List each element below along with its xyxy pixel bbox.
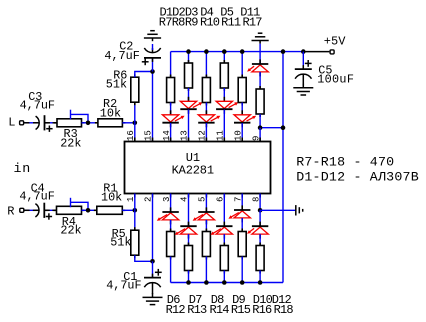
node label D4 bbox=[200, 5, 213, 19]
node label D11 bbox=[240, 5, 260, 19]
wire R8 to D2 bbox=[188, 88, 190, 101]
svg-text:9: 9 bbox=[251, 136, 261, 141]
net label +5V bbox=[324, 34, 346, 48]
node pin9 junction bbox=[258, 125, 263, 130]
note resistor values bbox=[296, 155, 394, 170]
value label R5 51k bbox=[110, 235, 131, 249]
pin 14 stub bbox=[170, 138, 172, 142]
wire D11 cathode to ground bbox=[259, 44, 261, 64]
pin 8 stub bbox=[259, 194, 261, 198]
wire R2 to pin16 node bbox=[122, 122, 134, 124]
capacitor C1 bbox=[144, 269, 162, 294]
svg-text:in: in bbox=[14, 161, 32, 176]
ground below C5 bbox=[293, 84, 313, 95]
terminal L bbox=[8, 116, 23, 130]
wire bottom bus bbox=[171, 282, 283, 284]
resistor R2 bbox=[95, 119, 126, 127]
node label D1 bbox=[160, 5, 173, 19]
svg-text:13: 13 bbox=[180, 130, 190, 141]
wire bus to R10 bbox=[223, 52, 225, 63]
node label D3 bbox=[185, 5, 198, 19]
wire D6 to R12 bbox=[170, 220, 172, 232]
text label C1 bbox=[123, 270, 137, 284]
pin 4 stub bbox=[188, 194, 190, 198]
node bottom bus junction pin7 bbox=[240, 280, 245, 285]
resistor R9 bbox=[202, 75, 210, 106]
wire +5V right rail bbox=[282, 52, 284, 283]
pin number 9 bbox=[251, 136, 261, 141]
wire bus to R11 bbox=[241, 52, 243, 78]
svg-text:KA2281: KA2281 bbox=[172, 163, 214, 177]
text label R5 bbox=[112, 227, 126, 241]
LED D4 bbox=[216, 97, 238, 114]
text label R4 bbox=[62, 215, 76, 229]
capacitor C3 bbox=[33, 115, 53, 132]
svg-text:R14: R14 bbox=[210, 303, 230, 317]
wire pin2 to IC bbox=[152, 194, 154, 262]
pin number 11 bbox=[216, 130, 226, 141]
svg-text:4,7uF: 4,7uF bbox=[20, 98, 55, 112]
wire R12 to bottom bus bbox=[170, 257, 172, 283]
resistor R7 bbox=[167, 75, 175, 106]
value label C2 4,7uF bbox=[104, 49, 139, 63]
value label R8 bbox=[172, 16, 185, 30]
value label R12 bbox=[166, 303, 186, 317]
resistor R18 bbox=[256, 243, 264, 274]
pin 2 stub bbox=[152, 194, 154, 198]
pin number 8 bbox=[251, 197, 261, 202]
wire pin16 to IC bbox=[134, 123, 136, 142]
svg-text:R18: R18 bbox=[274, 303, 294, 317]
wire pin16 node up to R6 bbox=[134, 102, 136, 123]
pin 16 stub bbox=[134, 138, 136, 142]
node bottom bus junction pin6 bbox=[222, 280, 227, 285]
wire R15 to bottom bus bbox=[223, 271, 225, 283]
wire R4 wiper jog bbox=[71, 198, 89, 211]
text label KA2281 bbox=[172, 163, 214, 177]
capacitor C5 bbox=[295, 60, 312, 86]
value label R4 22k bbox=[60, 223, 81, 237]
wire D4 to pin 11 bbox=[223, 110, 225, 142]
wire R10 to D4 bbox=[223, 88, 225, 101]
LED D12 bbox=[247, 222, 268, 239]
resistor R16 bbox=[238, 229, 246, 260]
wire D12 to R18 bbox=[259, 234, 261, 245]
svg-text:10k: 10k bbox=[101, 190, 122, 204]
wire R13 to bottom bus bbox=[188, 271, 190, 283]
text label R1 bbox=[103, 182, 117, 196]
wire pin8 to node bbox=[259, 194, 261, 211]
resistor R14 bbox=[202, 229, 210, 260]
ground below C1 bbox=[143, 293, 163, 304]
pin number 13 bbox=[180, 130, 190, 141]
wire D3 to pin 12 bbox=[205, 123, 207, 142]
node bottom bus junction pin8 bbox=[258, 280, 263, 285]
svg-text:R15: R15 bbox=[231, 303, 251, 317]
value label R13 bbox=[187, 303, 207, 317]
resistor R15 bbox=[220, 243, 228, 274]
svg-text:R8: R8 bbox=[172, 16, 185, 30]
pin number 7 bbox=[233, 197, 243, 202]
svg-text:R9: R9 bbox=[185, 16, 198, 30]
wire C2 lead bbox=[152, 58, 154, 72]
pin 15 stub bbox=[152, 138, 154, 142]
text label R3 bbox=[64, 127, 78, 141]
svg-text:15: 15 bbox=[144, 130, 154, 141]
svg-text:14: 14 bbox=[162, 130, 172, 141]
value label R17 bbox=[243, 16, 263, 30]
node bus-rail junction bbox=[281, 49, 286, 54]
node pin8 junction bbox=[258, 208, 263, 213]
pin 5 stub bbox=[205, 194, 207, 198]
svg-text:R7: R7 bbox=[159, 16, 172, 30]
node bus junction pin13 bbox=[186, 49, 191, 54]
wire R14 to bottom bus bbox=[205, 257, 207, 283]
ground above D11 bbox=[252, 33, 269, 44]
wire R9 to D3 bbox=[205, 103, 207, 115]
value label R2 10k bbox=[100, 106, 121, 120]
node bus junction pin11 bbox=[222, 49, 227, 54]
wire C2 to ground bbox=[152, 44, 154, 50]
wire R5 to pin2 node bbox=[135, 255, 153, 261]
resistor R17 bbox=[256, 86, 264, 117]
value label R7 bbox=[159, 16, 172, 30]
wire bus to R7 bbox=[170, 52, 172, 78]
node R4-R1 junction bbox=[86, 208, 91, 213]
pin number 5 bbox=[198, 197, 208, 202]
text label C5 bbox=[318, 64, 332, 78]
node label D6 bbox=[167, 293, 180, 307]
svg-text:12: 12 bbox=[198, 130, 208, 141]
text label R6 bbox=[113, 69, 127, 83]
node bus-C5 junction bbox=[301, 49, 306, 54]
capacitor C2 bbox=[142, 48, 161, 65]
resistor R5 bbox=[131, 227, 139, 258]
value label R10 bbox=[200, 16, 220, 30]
node R5-C1-pin2 junction bbox=[150, 259, 155, 264]
wire D10 to R16 bbox=[241, 218, 243, 232]
svg-text:+5V: +5V bbox=[324, 34, 346, 48]
node bus junction pin10 bbox=[240, 49, 245, 54]
value label R6 51k bbox=[106, 78, 127, 92]
wire pin 3 to D6 bbox=[170, 194, 172, 212]
LED D8 bbox=[193, 207, 215, 224]
LED D2 bbox=[180, 97, 202, 114]
wire R1 to pin1 node bbox=[122, 209, 135, 211]
node bottom bus junction pin4 bbox=[186, 280, 191, 285]
wire D1 to pin 14 bbox=[170, 123, 172, 142]
svg-text:R7-R18 - 470: R7-R18 - 470 bbox=[296, 155, 394, 170]
ground at pin8 bbox=[296, 205, 303, 215]
node rail junction bbox=[281, 125, 286, 130]
wire R3 to R2 bbox=[82, 122, 98, 124]
wire pin 4 to D7 bbox=[188, 194, 190, 227]
svg-text:100uF: 100uF bbox=[317, 73, 354, 87]
resistor R12 bbox=[167, 229, 175, 260]
pin number 2 bbox=[144, 197, 154, 202]
svg-text:4,7uF: 4,7uF bbox=[19, 190, 54, 204]
value label R3 22k bbox=[60, 137, 81, 151]
svg-text:R: R bbox=[7, 205, 14, 219]
node C2-R6-pin15 junction bbox=[150, 69, 155, 74]
wire R17 to pin9 node bbox=[259, 114, 261, 128]
pin 10 stub bbox=[241, 138, 243, 142]
wire pin8 node to D12 bbox=[259, 210, 261, 226]
wire R4 to R1 bbox=[82, 209, 97, 211]
svg-text:R17: R17 bbox=[243, 16, 263, 30]
svg-text:51k: 51k bbox=[110, 235, 131, 249]
node bottom bus junction pin5 bbox=[204, 280, 209, 285]
resistor R11 bbox=[238, 75, 246, 106]
wire +5V top bus bbox=[171, 51, 305, 53]
value label C1 4,7uF bbox=[106, 279, 141, 293]
svg-text:R12: R12 bbox=[166, 303, 186, 317]
pin number 3 bbox=[162, 197, 172, 202]
wire pin 5 to D8 bbox=[205, 194, 207, 212]
pin number 1 bbox=[126, 197, 136, 202]
wire R11 to D5 bbox=[241, 103, 243, 115]
svg-text:16: 16 bbox=[126, 130, 136, 141]
pin 1 stub bbox=[134, 194, 136, 198]
LED D10 bbox=[228, 205, 250, 222]
wire D5 to pin 10 bbox=[241, 123, 243, 142]
svg-text:4,7uF: 4,7uF bbox=[106, 279, 141, 293]
wire D7 to R13 bbox=[188, 234, 190, 245]
text label in bbox=[14, 161, 32, 176]
value label R9 bbox=[185, 16, 198, 30]
LED D5 bbox=[234, 110, 256, 127]
value label C3 4,7uF bbox=[20, 98, 55, 112]
node pin16 junction bbox=[133, 121, 138, 126]
resistor R10 bbox=[220, 60, 228, 91]
svg-text:51k: 51k bbox=[106, 78, 127, 92]
terminal +5V bbox=[330, 50, 334, 54]
node label D8 bbox=[211, 293, 224, 307]
wire R input bbox=[24, 209, 38, 211]
ground above C2 bbox=[144, 31, 161, 42]
pin 7 stub bbox=[241, 194, 243, 198]
svg-text:11: 11 bbox=[216, 130, 226, 141]
LED D11 bbox=[247, 59, 268, 76]
wire +5V terminal lead bbox=[305, 51, 329, 53]
value label R1 10k bbox=[101, 190, 122, 204]
svg-text:10k: 10k bbox=[100, 106, 121, 120]
LED D6 bbox=[157, 207, 179, 224]
pin 6 stub bbox=[223, 194, 225, 198]
svg-text:R16: R16 bbox=[252, 303, 272, 317]
potentiometer R3 bbox=[54, 119, 85, 127]
wire pin 6 to D9 bbox=[223, 194, 225, 227]
value label R15 bbox=[231, 303, 251, 317]
node pin1 junction bbox=[133, 208, 138, 213]
wire C2 node down pin15 bbox=[152, 72, 154, 142]
svg-text:22k: 22k bbox=[60, 137, 81, 151]
node label D2 bbox=[172, 5, 185, 19]
value label R18 bbox=[274, 303, 294, 317]
wire bus to C5 bbox=[302, 52, 304, 70]
wire C1 lead bbox=[152, 261, 154, 277]
wire pin1 node to R5 bbox=[134, 210, 136, 230]
terminal R bbox=[7, 205, 24, 219]
resistor R8 bbox=[185, 60, 193, 91]
value label R14 bbox=[210, 303, 230, 317]
pin number 15 bbox=[144, 130, 154, 141]
svg-text:L: L bbox=[8, 116, 15, 130]
wire pin 7 to D10 bbox=[241, 194, 243, 210]
wire C4 to R4 bbox=[44, 209, 57, 211]
IC U1 KA2281 bbox=[125, 142, 271, 194]
pin 9 stub bbox=[259, 138, 261, 142]
text label C2 bbox=[119, 40, 133, 54]
pin number 16 bbox=[126, 130, 136, 141]
wire C3 to R3 bbox=[45, 122, 58, 124]
node R3-R2 junction bbox=[86, 121, 91, 126]
resistor R13 bbox=[185, 243, 193, 274]
svg-text:R11: R11 bbox=[221, 16, 241, 30]
wire R7 to D1 bbox=[170, 103, 172, 115]
potentiometer R4 bbox=[54, 206, 85, 214]
wire L input bbox=[24, 122, 38, 124]
value label C5 100uF bbox=[317, 73, 354, 87]
node label D9 bbox=[232, 293, 245, 307]
svg-text:D1-D12 - АЛ307В: D1-D12 - АЛ307В bbox=[296, 170, 419, 185]
node label D5 bbox=[220, 5, 233, 19]
text label U1 bbox=[186, 151, 200, 165]
text label C3 bbox=[28, 90, 42, 104]
node label D7 bbox=[189, 293, 202, 307]
pin number 6 bbox=[216, 197, 226, 202]
wire bus to R9 bbox=[205, 52, 207, 78]
pin number 14 bbox=[162, 130, 172, 141]
svg-text:22k: 22k bbox=[60, 223, 81, 237]
wire R16 to bottom bus bbox=[241, 257, 243, 283]
wire pin9 to IC bbox=[259, 128, 261, 142]
wire D8 to R14 bbox=[205, 220, 207, 232]
LED D3 bbox=[198, 110, 220, 127]
wire R6 top to C2 node bbox=[135, 72, 153, 78]
pin number 12 bbox=[198, 130, 208, 141]
text label R2 bbox=[103, 97, 117, 111]
wire D2 to pin 13 bbox=[188, 110, 190, 142]
resistor R6 bbox=[131, 74, 139, 105]
pin 13 stub bbox=[188, 138, 190, 142]
wire pin9 node to rail bbox=[260, 127, 283, 129]
node label D12 bbox=[272, 293, 292, 307]
LED D7 bbox=[175, 222, 197, 239]
wire D11 to R17 bbox=[259, 72, 261, 89]
svg-text:R13: R13 bbox=[187, 303, 207, 317]
wire pin8 to ground bbox=[260, 209, 296, 211]
wire bus to R8 bbox=[188, 52, 190, 63]
pin number 10 bbox=[233, 130, 243, 141]
capacitor C4 bbox=[33, 203, 52, 220]
LED D9 bbox=[211, 222, 233, 239]
node bus junction pin12 bbox=[204, 49, 209, 54]
svg-text:R10: R10 bbox=[200, 16, 220, 30]
pin number 4 bbox=[180, 197, 190, 202]
svg-text:10: 10 bbox=[233, 130, 243, 141]
value label R11 bbox=[221, 16, 241, 30]
resistor R1 bbox=[94, 206, 126, 214]
wire pin1 to IC bbox=[134, 194, 136, 211]
wire R3 wiper jog bbox=[71, 110, 89, 123]
pin 11 stub bbox=[223, 138, 225, 142]
wire D9 to R15 bbox=[223, 234, 225, 245]
text label C4 bbox=[31, 182, 45, 196]
LED D1 bbox=[162, 110, 184, 127]
node label D10 bbox=[253, 293, 273, 307]
pin 3 stub bbox=[170, 194, 172, 198]
value label C4 4,7uF bbox=[19, 190, 54, 204]
pin 12 stub bbox=[205, 138, 207, 142]
value label R16 bbox=[252, 303, 272, 317]
svg-text:4,7uF: 4,7uF bbox=[104, 49, 139, 63]
wire R18 to bottom bus bbox=[259, 271, 261, 283]
note diode type bbox=[296, 170, 419, 185]
